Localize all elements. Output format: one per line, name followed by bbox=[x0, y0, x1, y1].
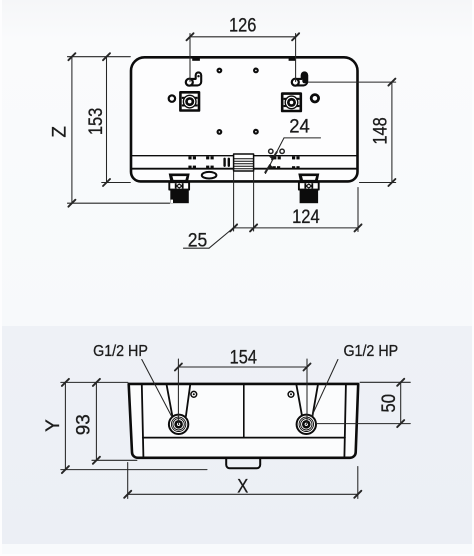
svg-text:93: 93 bbox=[73, 414, 94, 435]
bottom tab bbox=[226, 459, 260, 468]
dim 50 line bbox=[400, 382, 402, 423]
dim texts top bbox=[49, 16, 391, 252]
svg-text:X: X bbox=[237, 476, 248, 497]
dim X right extension bbox=[357, 467, 359, 499]
inner wall right bbox=[344, 385, 346, 457]
svg-text:G1/2 HP: G1/2 HP bbox=[343, 343, 398, 360]
svg-text:G1/2 HP: G1/2 HP bbox=[93, 343, 148, 360]
cable gland left bbox=[180, 92, 199, 110]
leader G1/2 HP left bbox=[142, 360, 172, 417]
leader for 24 bbox=[284, 137, 321, 139]
dim 148 top extension bbox=[308, 81, 396, 83]
funnel recess left bbox=[167, 385, 191, 417]
screw hole dot top-left bbox=[217, 68, 259, 135]
dim texts bottom bbox=[43, 343, 400, 497]
leader G1/2 HP right bbox=[312, 360, 338, 417]
water fitting bottom-right bbox=[298, 174, 319, 204]
screw hole dot mid-right bbox=[253, 129, 259, 135]
screw hole dot top-right bbox=[253, 68, 259, 74]
screw hole dot mid-left bbox=[217, 129, 223, 135]
svg-text:24: 24 bbox=[289, 116, 310, 137]
svg-text:154: 154 bbox=[230, 347, 258, 368]
funnel recess right bbox=[296, 385, 318, 417]
lower band line 2 bbox=[131, 168, 358, 170]
cable gland right bbox=[282, 94, 301, 111]
leader 24 hole B bbox=[280, 149, 284, 153]
dim 25/124 extension lines bbox=[233, 172, 235, 231]
band clips bbox=[188, 156, 299, 169]
inner wall left bbox=[142, 385, 144, 457]
dim 124 line bbox=[234, 227, 358, 229]
dim 126 extension lines bbox=[189, 34, 191, 82]
svg-text:126: 126 bbox=[229, 16, 256, 37]
leader 24 hole A bbox=[269, 149, 273, 153]
dim 93 line bbox=[95, 382, 97, 460]
dim Z bottom extension bbox=[68, 202, 170, 204]
inner front line bbox=[143, 437, 345, 439]
dim 24 ticks bbox=[272, 152, 277, 159]
dim Y line bbox=[64, 382, 66, 469]
pipe fitting left bbox=[169, 415, 188, 434]
svg-text:Y: Y bbox=[43, 419, 64, 432]
dim Y/93 top extension bbox=[61, 381, 128, 383]
body outline bbox=[131, 57, 358, 181]
pipe fitting right bbox=[297, 415, 316, 434]
water fitting bottom-left bbox=[169, 174, 190, 204]
svg-text:Z: Z bbox=[49, 126, 70, 138]
dim 50 top extension bbox=[360, 381, 410, 383]
top edge tab right bbox=[289, 57, 296, 61]
vent slots bbox=[223, 158, 225, 167]
dim X left extension bbox=[127, 463, 129, 499]
dim 50 bottom extension bbox=[316, 423, 410, 425]
body outline bbox=[129, 384, 359, 458]
dim 126 line bbox=[190, 36, 296, 38]
svg-text:148: 148 bbox=[370, 117, 391, 144]
dim 153 bottom extension bbox=[102, 182, 131, 184]
oval hole bbox=[202, 172, 217, 179]
dim X line bbox=[128, 493, 358, 495]
terminal block (24mm) bbox=[234, 154, 254, 171]
dim 154 extension lines bbox=[177, 359, 179, 424]
dim 153 line bbox=[106, 57, 108, 183]
screw boss left bbox=[191, 391, 197, 397]
lower band line 1 bbox=[131, 155, 358, 157]
dim 93 bottom extension bbox=[92, 459, 137, 461]
dim 154 line bbox=[178, 366, 307, 368]
dim Z line bbox=[71, 57, 73, 204]
svg-text:50: 50 bbox=[379, 394, 400, 413]
leader for 25 bbox=[184, 247, 210, 249]
screw boss right bbox=[288, 391, 294, 397]
svg-text:124: 124 bbox=[292, 207, 320, 228]
dim 148 bottom extension bbox=[360, 182, 396, 184]
dim Y bottom extension bbox=[61, 469, 207, 471]
svg-text:153: 153 bbox=[86, 108, 107, 135]
grommet ring right bbox=[311, 95, 318, 102]
centre divider bbox=[243, 385, 245, 438]
dim Z/153 shared top extension bbox=[68, 56, 131, 58]
svg-text:25: 25 bbox=[188, 231, 208, 252]
keyhole slot right bbox=[292, 72, 307, 86]
top edge tab left bbox=[192, 57, 200, 61]
dim 148 line bbox=[391, 82, 393, 182]
grommet ring left bbox=[169, 95, 175, 101]
keyhole slot left bbox=[186, 72, 201, 85]
